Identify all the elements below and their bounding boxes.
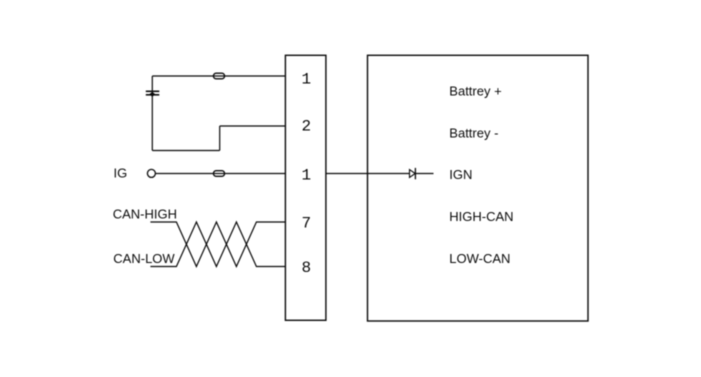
- pin 8: [301, 259, 311, 277]
- svg-text:1: 1: [301, 166, 311, 184]
- svg-text:8: 8: [301, 259, 311, 277]
- wire CAN-HIGH twisted: [150, 222, 285, 267]
- pin 7: [301, 215, 311, 233]
- wire battery vertical: [151, 76, 153, 151]
- label IGN: [449, 167, 472, 182]
- label IG: [114, 165, 128, 180]
- fuse F1: [213, 73, 224, 79]
- terminal IG: [147, 169, 155, 177]
- svg-text:HIGH-CAN: HIGH-CAN: [449, 209, 513, 224]
- svg-text:1: 1: [301, 70, 311, 88]
- wire battery- bottom run: [152, 150, 219, 152]
- svg-text:CAN-HIGH: CAN-HIGH: [113, 206, 177, 221]
- pin 2: [301, 118, 311, 136]
- pin 1: [301, 70, 311, 88]
- wire IGN from connector to box: [326, 173, 434, 175]
- diode D1: [410, 168, 416, 179]
- svg-text:7: 7: [301, 215, 311, 233]
- connector J1: [285, 55, 326, 320]
- wire IG to pin 1: [156, 173, 286, 175]
- svg-text:2: 2: [301, 118, 311, 136]
- ECU box U1: [368, 55, 589, 321]
- label Battrey -: [449, 125, 498, 140]
- wire battery+ to pin 1: [152, 75, 285, 77]
- wire CAN-LOW twisted: [150, 222, 285, 267]
- label CAN-LOW: [113, 251, 175, 266]
- label HIGH-CAN: [449, 209, 513, 224]
- wire riser to pin 2: [219, 126, 221, 151]
- label Battrey +: [449, 84, 501, 99]
- svg-text:CAN-LOW: CAN-LOW: [113, 251, 175, 266]
- pin 1 IGN: [301, 166, 311, 184]
- svg-text:IG: IG: [114, 165, 128, 180]
- svg-text:IGN: IGN: [449, 167, 472, 182]
- svg-text:LOW-CAN: LOW-CAN: [449, 251, 510, 266]
- svg-text:Battrey +: Battrey +: [449, 84, 501, 99]
- label LOW-CAN: [449, 251, 510, 266]
- svg-text:Battrey -: Battrey -: [449, 125, 498, 140]
- battery B1: [146, 91, 160, 96]
- fuse F2: [213, 171, 224, 177]
- label CAN-HIGH: [113, 206, 177, 221]
- wire to pin 2: [220, 125, 286, 127]
